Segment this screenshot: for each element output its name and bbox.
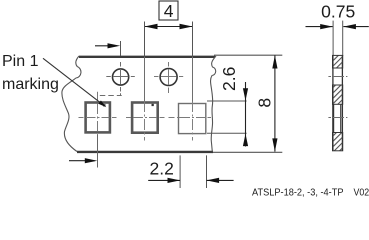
dimension 8 bottom arrow — [272, 138, 277, 151]
pocket 1 horizontal center line — [79, 117, 117, 119]
dimension 2.2 line right — [207, 179, 234, 181]
pocket reference arrow (bottom left) — [69, 160, 95, 162]
svg-text:4: 4 — [164, 1, 174, 21]
tape bottom edge — [77, 151, 213, 153]
dimension 4 extension line right — [192, 22, 194, 58]
sprocket hole 2 center lines — [168, 62, 170, 93]
tape bottom edge extension (right, thin) — [213, 151, 282, 153]
pocket 1 pin-1 dot — [103, 104, 105, 106]
dimension 2.6 bottom arrow — [243, 134, 248, 146]
svg-text:2.2: 2.2 — [150, 158, 174, 178]
dashed connector line (pocket 1 centerline to sprocket centerline) — [100, 95, 122, 97]
dimension 2.6 top arrow — [243, 88, 248, 100]
side view pocket left wall (thick) — [332, 104, 334, 132]
pocket 2 pin-1 dot — [152, 104, 154, 106]
side view hatch block 3 — [333, 133, 343, 151]
dimension 8 line (tape width) — [274, 55, 276, 151]
dimension 0.75 left arrow — [320, 24, 333, 29]
dimension 4 right arrow — [180, 24, 193, 29]
sprocket reference arrow (top left) — [95, 45, 117, 47]
tape left torn edge — [62, 56, 81, 152]
pocket 1 (with Pin 1 marking) — [86, 103, 110, 133]
side view pocket cavity wall — [340, 104, 342, 132]
svg-text:0.75: 0.75 — [321, 2, 355, 22]
pocket 3 vertical center line — [192, 57, 194, 102]
Pin 1 leader arrowhead — [98, 101, 106, 108]
side view sprocket hole gap center line — [328, 76, 347, 78]
sprocket hole 1 center lines — [120, 62, 122, 92]
dimension 2.6 line — [245, 82, 247, 147]
dimension 0.75 left line — [306, 26, 333, 28]
svg-text:Pin 1: Pin 1 — [2, 53, 39, 70]
pocket 1 center line below tape — [97, 135, 99, 168]
dimension 0.75 right line — [343, 26, 369, 28]
tape right torn edge — [211, 56, 216, 152]
svg-text:2.6: 2.6 — [219, 67, 239, 91]
pocket 2 horizontal center line — [126, 117, 165, 119]
pocket 3 horizontal center line — [169, 117, 212, 119]
sprocket hole 1 — [113, 69, 129, 85]
dimension 2.2 extension lines — [179, 155, 181, 188]
dimension 4 left arrow — [145, 24, 158, 29]
dimension 2.2 line left — [148, 179, 180, 181]
svg-text:marking: marking — [2, 76, 59, 93]
dimension 2.2 right-pointing arrow — [168, 178, 181, 183]
pocket 1 vertical center line — [97, 92, 99, 135]
Pin 1 leader line — [43, 58, 101, 103]
side view hatch block 2 — [333, 85, 343, 104]
dimension 8 top arrow — [272, 55, 277, 68]
side view strip right edge — [341, 55, 343, 151]
side view strip left edge — [332, 55, 334, 151]
tape top edge — [79, 56, 215, 58]
side view hatch block 1 — [333, 55, 343, 68]
pocket 2 vertical center line — [144, 57, 146, 102]
pocket 3 (thin outline, at torn edge) — [179, 104, 206, 134]
dimension 4 line — [145, 26, 193, 28]
pocket 2 — [132, 103, 158, 133]
svg-text:V02: V02 — [354, 187, 369, 198]
dimension 2.2 left-pointing arrow — [207, 178, 220, 183]
side view pocket gap center line — [328, 117, 347, 119]
svg-text:ATSLP-18-2, -3, -4-TP: ATSLP-18-2, -3, -4-TP — [252, 187, 344, 198]
sprocket hole 2 — [160, 69, 177, 86]
svg-text:8: 8 — [255, 98, 275, 108]
tape top edge extension (right, thin) — [214, 54, 282, 56]
dimension 0.75 right arrow — [343, 24, 356, 29]
dimension 4 (pocket pitch) box — [159, 1, 178, 20]
sprocket reference extension line — [120, 41, 122, 56]
dimension 2.6 extension lines — [207, 100, 247, 102]
dimension 0.75 extension lines — [332, 21, 334, 56]
dimension 4 extension line left — [144, 22, 146, 58]
